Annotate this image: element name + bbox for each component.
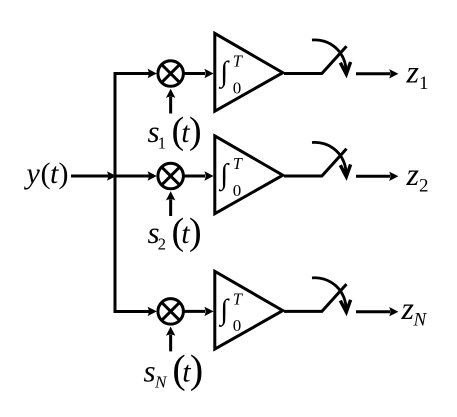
svg-text:y: y xyxy=(24,157,41,190)
output arrow to z_N xyxy=(356,307,398,316)
switch S2: sampling action curved arrow (sample at t=T) xyxy=(312,142,351,176)
label: integral 0 to T inside U2 xyxy=(218,154,244,200)
output label z_1 xyxy=(406,54,429,95)
svg-text:): ) xyxy=(59,157,69,190)
node: arrowhead into multiplier M3 xyxy=(148,307,157,316)
svg-text:2: 2 xyxy=(158,234,166,253)
svg-text:): ) xyxy=(189,211,202,253)
wire: vertical distribution bus with top and bottom branches xyxy=(115,74,149,312)
svg-text:1: 1 xyxy=(419,73,429,94)
multiplier M1: circle with X (mixer) xyxy=(158,61,184,87)
svg-text:z: z xyxy=(401,290,415,326)
svg-text:N: N xyxy=(413,310,428,331)
label s_N(t) xyxy=(144,346,204,391)
wire: bus to multiplier M2 branch (middle) xyxy=(115,175,149,178)
svg-text:0: 0 xyxy=(233,181,242,200)
integrator U2: triangle amplifier symbol xyxy=(215,136,283,214)
integrator U1: triangle amplifier symbol xyxy=(215,33,283,111)
switch S2: open sampling switch arm xyxy=(321,149,346,177)
wire: multiplier M3 to integrator U3, with arrowhead xyxy=(184,307,214,316)
svg-text:z: z xyxy=(406,156,420,192)
output arrow to z_2 xyxy=(356,172,398,181)
label: integral 0 to T inside U3 xyxy=(218,289,244,335)
wire: integrator U1 output to switch S1 xyxy=(284,72,322,75)
svg-text:): ) xyxy=(190,346,203,391)
svg-text:z: z xyxy=(406,54,420,90)
label s_2(t) xyxy=(148,211,202,253)
switch S3: sampling action curved arrow (sample at t=T) xyxy=(312,278,351,312)
output label z_N xyxy=(401,290,428,331)
input signal label y(t) xyxy=(24,157,69,190)
switch S1: open sampling switch arm xyxy=(321,46,346,74)
label: integral 0 to T inside U1 xyxy=(218,52,244,98)
wire/arrow: reference input s_1(t) into multiplier M1 xyxy=(166,89,175,114)
multiplier M3: circle with X (mixer) xyxy=(158,299,184,325)
switch S3: open sampling switch arm xyxy=(321,284,346,312)
wire: integrator U2 output to switch S2 xyxy=(284,175,322,178)
svg-text:0: 0 xyxy=(233,316,242,335)
wire: integrator U3 output to switch S3 xyxy=(284,310,322,313)
node: arrowhead into multiplier M1 xyxy=(148,69,157,78)
svg-text:s: s xyxy=(144,353,156,388)
multiplier M2: circle with X (mixer) xyxy=(158,163,184,189)
svg-text:1: 1 xyxy=(158,133,166,152)
wire: input y(t) to bus junction, with arrowhead xyxy=(71,171,116,180)
label s_1(t) xyxy=(148,110,202,152)
output label z_2 xyxy=(406,156,429,197)
svg-text:0: 0 xyxy=(233,78,242,97)
svg-text:): ) xyxy=(189,110,202,152)
wire/arrow: reference input s_N(t) into multiplier M3 xyxy=(166,327,175,352)
wire/arrow: reference input s_2(t) into multiplier M2 xyxy=(166,191,175,216)
node: arrowhead into multiplier M2 xyxy=(148,171,157,180)
svg-text:2: 2 xyxy=(419,176,429,197)
wire: multiplier M1 to integrator U1, with arrowhead xyxy=(184,69,214,78)
wire: multiplier M2 to integrator U2, with arrowhead xyxy=(184,171,214,180)
switch S1: sampling action curved arrow (sample at t=T) xyxy=(312,40,351,74)
svg-text:(: ( xyxy=(41,157,51,190)
integrator U3: triangle amplifier symbol xyxy=(215,271,283,349)
svg-text:N: N xyxy=(154,373,168,392)
output arrow to z_1 xyxy=(356,69,398,78)
